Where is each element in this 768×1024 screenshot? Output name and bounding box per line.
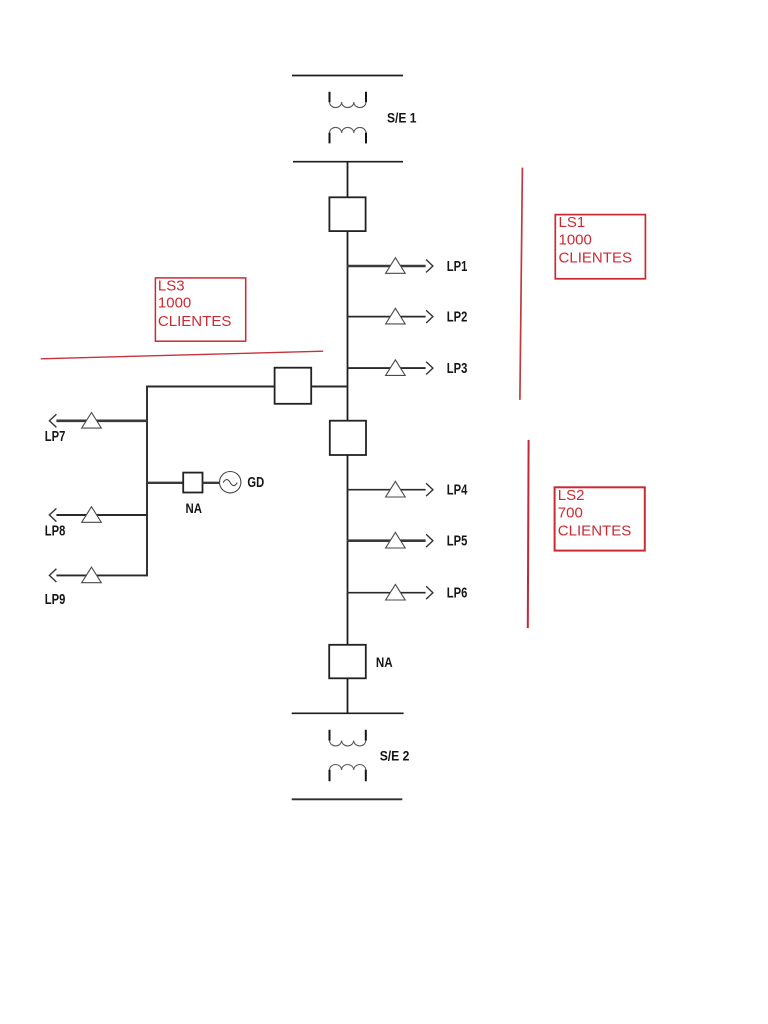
transformer S/E2 secondary winding	[330, 765, 366, 782]
svg-text:LP6: LP6	[447, 586, 468, 602]
arrowhead LP2	[426, 310, 433, 323]
svg-text:NA: NA	[186, 500, 203, 516]
wire: NA box to S/E2 busbar	[347, 678, 349, 713]
section boundary line LS3 (red diagonal)	[41, 351, 323, 359]
svg-text:LP5: LP5	[447, 534, 468, 550]
arrowhead LP9	[49, 569, 56, 582]
load LP2 triangle	[386, 308, 406, 324]
load LP9 triangle	[82, 567, 102, 583]
svg-text:LP7: LP7	[45, 429, 66, 445]
transformer S/E1 secondary winding	[330, 127, 367, 143]
wire: LP4 branch	[347, 489, 426, 491]
wire: left lateral vertical	[146, 386, 148, 577]
wire: main feeder section LS2 (CB2 down past LP4-LP6 to NA box)	[347, 455, 349, 645]
switch box NF on tie line	[275, 368, 312, 404]
switch box NA (generator tie)	[183, 473, 202, 493]
svg-text:LP3: LP3	[447, 361, 468, 377]
load LP7 triangle	[82, 413, 102, 429]
svg-text:LP9: LP9	[45, 592, 66, 608]
load LP4 triangle	[386, 481, 406, 497]
load LP6 triangle	[386, 584, 406, 600]
svg-text:GD: GD	[247, 475, 264, 491]
wire: S/E1 top busbar	[292, 75, 403, 77]
switch box NA (normally open) on feeder to S/E2	[329, 645, 366, 679]
wire: LP2 branch	[347, 316, 426, 318]
wire: main feeder section LS1 (CB1 down past LP1-LP3 to CB2)	[347, 231, 349, 421]
load LP1 triangle	[386, 258, 406, 274]
wire: GD branch right segment	[203, 482, 221, 484]
arrowhead LP5	[426, 534, 433, 547]
LS3 label box	[155, 278, 245, 341]
wire: LP1 branch	[347, 265, 426, 268]
wire: LP5 branch	[347, 539, 426, 542]
wire: LP6 branch	[347, 592, 426, 594]
wire: S/E1 bottom busbar	[293, 161, 403, 163]
arrowhead LP3	[426, 362, 433, 375]
LS1 label box	[555, 215, 645, 279]
transformer S/E2 primary winding	[330, 730, 366, 746]
svg-text:S/E 1: S/E 1	[387, 110, 417, 126]
arrowhead LP7	[49, 414, 56, 427]
svg-text:LP2: LP2	[447, 309, 468, 325]
wire: LP7 branch	[56, 419, 147, 422]
wire: S/E2 bottom busbar	[292, 798, 403, 800]
arrowhead LP4	[426, 483, 433, 496]
arrowhead LP6	[426, 586, 433, 599]
breaker CB2	[330, 421, 366, 455]
svg-text:NA: NA	[376, 654, 393, 670]
section marker line LS1 (red)	[520, 168, 523, 400]
breaker CB1	[329, 197, 365, 231]
wire: feeder from S/E1 busbar to breaker CB1	[347, 162, 349, 198]
svg-text:LP1: LP1	[447, 259, 468, 275]
load LP8 triangle	[82, 507, 102, 523]
wire: LP3 branch	[347, 367, 426, 369]
wire: LP8 branch	[51, 514, 147, 516]
generator GD	[220, 472, 241, 493]
section marker line LS2 (red)	[527, 440, 530, 628]
svg-text:S/E 2: S/E 2	[380, 748, 410, 764]
load LP3 triangle	[386, 360, 406, 376]
LS2 label box	[555, 487, 645, 550]
load LP5 triangle	[386, 532, 406, 548]
wire: GD branch left segment	[147, 482, 184, 484]
svg-text:LP4: LP4	[447, 483, 468, 499]
wire: S/E2 top busbar	[292, 712, 404, 714]
wire: LP9 branch	[51, 574, 147, 576]
arrowhead LP8	[49, 508, 56, 521]
wire: tie line from left lateral to main feeder	[147, 386, 348, 388]
arrowhead LP1	[426, 260, 433, 273]
transformer S/E1 primary winding	[330, 92, 367, 108]
svg-text:LP8: LP8	[45, 524, 66, 540]
